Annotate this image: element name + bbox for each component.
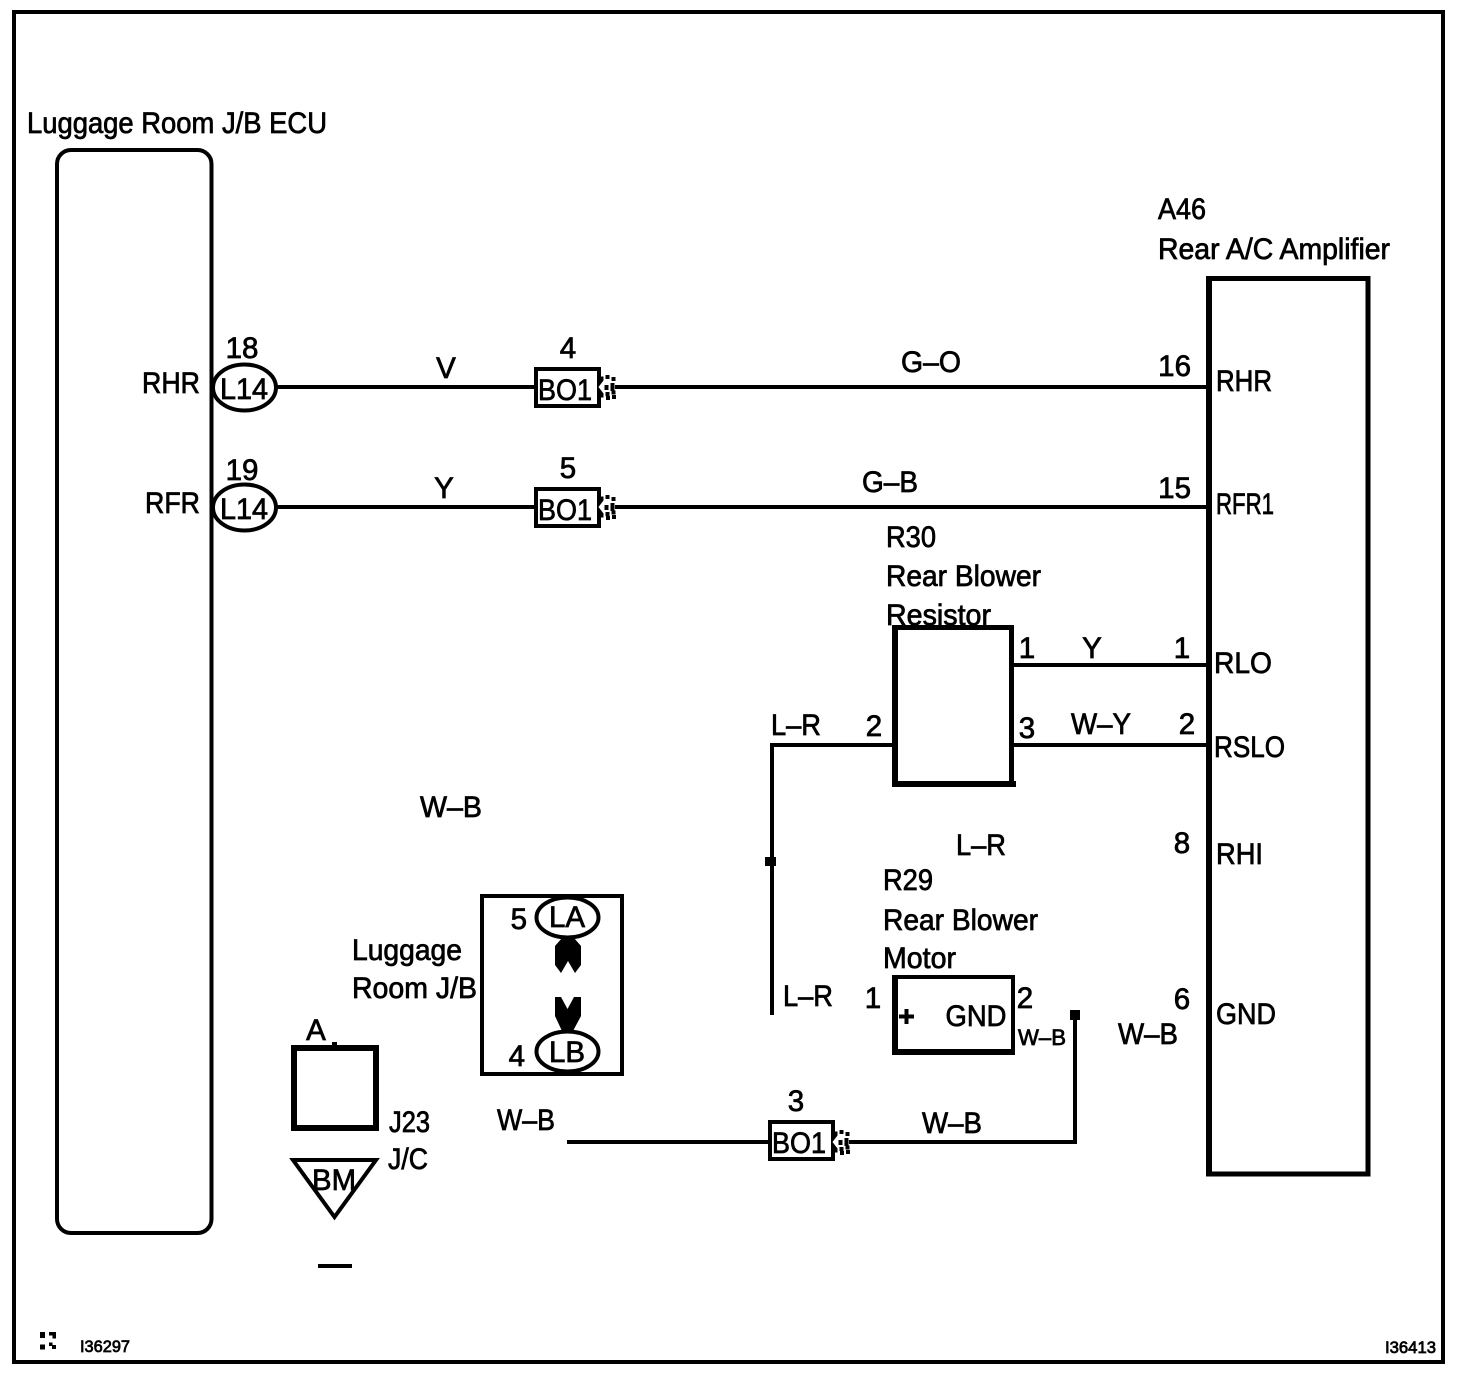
svg-text:L14: L14 xyxy=(220,373,268,406)
svg-text:Rear Blower: Rear Blower xyxy=(883,904,1038,937)
wire G-O : BO1-4 to A46 pin 16 xyxy=(615,385,1206,389)
internal arrow (upper, from LA) xyxy=(555,938,581,973)
svg-text:RHI: RHI xyxy=(1216,838,1263,871)
svg-text:A: A xyxy=(306,1014,326,1047)
svg-text:L–R: L–R xyxy=(771,709,821,742)
A46 left edge (thick) xyxy=(1206,276,1212,1177)
connector LB oval xyxy=(537,1032,599,1072)
junction tick on vertical wire xyxy=(765,857,776,866)
pin A tick xyxy=(332,1042,337,1047)
A46 amplifier box xyxy=(1206,276,1371,281)
svg-text:5: 5 xyxy=(560,452,576,485)
junction connector J23 box xyxy=(291,1045,379,1051)
svg-text:J/C: J/C xyxy=(388,1143,428,1176)
svg-text:2: 2 xyxy=(866,710,882,743)
svg-text:L14: L14 xyxy=(220,493,268,526)
connector LA oval xyxy=(537,898,599,938)
wire L-R from R30-2 : left then down xyxy=(770,743,892,747)
svg-text:L–R: L–R xyxy=(956,829,1006,862)
connector mark (dotted chevron) xyxy=(831,1132,838,1153)
svg-text:RLO: RLO xyxy=(1214,647,1272,680)
svg-text:W–B: W–B xyxy=(497,1104,555,1137)
svg-text:2: 2 xyxy=(1179,708,1195,741)
svg-text:G–O: G–O xyxy=(901,346,961,379)
footer glyph icon xyxy=(40,1332,45,1338)
connector 4 BO1 box xyxy=(534,367,601,371)
wire W-Y : R30-3 to A46 RSLO xyxy=(1014,743,1206,747)
R30 left edge thick xyxy=(892,625,898,787)
svg-text:LB: LB xyxy=(549,1036,585,1069)
svg-text:16: 16 xyxy=(1158,350,1191,383)
ground triangle BM xyxy=(293,1160,376,1217)
R30 resistor box xyxy=(892,625,1014,630)
svg-text:Luggage Room J/B ECU: Luggage Room J/B ECU xyxy=(27,107,327,140)
plus polarity mark xyxy=(899,1015,914,1019)
outer border frame xyxy=(12,10,1445,14)
svg-text:2: 2 xyxy=(1017,982,1033,1015)
svg-text:Y: Y xyxy=(434,472,454,505)
connector 3 BO1 box xyxy=(768,1120,835,1124)
svg-text:BO1: BO1 xyxy=(772,1127,826,1160)
svg-text:Rear Blower: Rear Blower xyxy=(886,560,1041,593)
svg-text:Room J/B: Room J/B xyxy=(352,972,477,1005)
wire W-B from R29-2 : dot, down, left to BO1-3 xyxy=(1070,1010,1080,1020)
svg-text:Y: Y xyxy=(1082,632,1102,665)
svg-text:W–B: W–B xyxy=(420,791,482,824)
wire Y : L14-19 to BO1-5 xyxy=(277,505,534,509)
connector mark (dotted chevron) xyxy=(597,377,604,398)
svg-text:W–Y: W–Y xyxy=(1071,708,1131,741)
J/B box xyxy=(480,894,624,898)
svg-text:W–B: W–B xyxy=(922,1107,982,1140)
svg-text:1: 1 xyxy=(1019,632,1035,665)
svg-text:5: 5 xyxy=(511,903,527,936)
svg-text:1: 1 xyxy=(1174,632,1190,665)
connector mark (dotted chevron) xyxy=(597,497,604,518)
svg-text:LA: LA xyxy=(549,901,585,934)
svg-text:BM: BM xyxy=(312,1164,356,1197)
ground dash below triangle xyxy=(318,1264,352,1268)
svg-text:J23: J23 xyxy=(389,1106,430,1139)
R29 motor box xyxy=(892,975,1015,979)
svg-text:15: 15 xyxy=(1158,472,1191,505)
internal arrow (lower, into LB) xyxy=(555,997,581,1031)
svg-text:BO1: BO1 xyxy=(538,494,592,527)
svg-text:G–B: G–B xyxy=(862,466,918,499)
svg-text:RSLO: RSLO xyxy=(1214,731,1285,764)
svg-text:1: 1 xyxy=(865,982,881,1015)
svg-text:18: 18 xyxy=(226,332,259,365)
svg-text:L–R: L–R xyxy=(783,980,833,1013)
svg-text:19: 19 xyxy=(226,454,259,487)
svg-text:A46: A46 xyxy=(1158,193,1206,226)
svg-text:4: 4 xyxy=(509,1040,525,1073)
svg-text:3: 3 xyxy=(788,1085,804,1118)
svg-text:6: 6 xyxy=(1174,983,1190,1016)
svg-text:W–B: W–B xyxy=(1118,1018,1178,1051)
svg-text:3: 3 xyxy=(1019,712,1035,745)
svg-text:V: V xyxy=(436,352,456,385)
R30 bottom edge thick xyxy=(892,781,1016,787)
svg-text:RHR: RHR xyxy=(142,367,200,400)
svg-text:W–B: W–B xyxy=(1018,1025,1066,1050)
svg-text:I36413: I36413 xyxy=(1385,1338,1436,1357)
wire W-B left of BO1-3 xyxy=(567,1140,768,1144)
ECU block (rounded rect) xyxy=(57,150,212,1233)
svg-text:Luggage: Luggage xyxy=(352,934,462,967)
svg-text:GND: GND xyxy=(946,1000,1007,1033)
R29 left edge thick xyxy=(892,975,898,1055)
svg-text:R30: R30 xyxy=(886,521,936,554)
svg-text:RFR: RFR xyxy=(145,487,200,520)
svg-text:GND: GND xyxy=(1216,998,1276,1031)
connector L14 (pin 19) oval xyxy=(213,485,276,531)
wire Y : R30-1 to A46 RLO xyxy=(1014,663,1206,667)
connector 5 BO1 box xyxy=(534,487,601,491)
svg-text:BO1: BO1 xyxy=(538,374,592,407)
connector L14 (pin 18) oval xyxy=(213,365,276,411)
svg-text:RFR1: RFR1 xyxy=(1216,488,1274,521)
svg-text:R29: R29 xyxy=(883,864,933,897)
wire V : L14-18 to BO1-4 xyxy=(277,385,534,389)
svg-text:I36297: I36297 xyxy=(80,1337,130,1356)
svg-text:RHR: RHR xyxy=(1216,365,1272,398)
R29 bottom edge thick xyxy=(892,1049,1015,1055)
svg-text:Rear A/C Amplifier: Rear A/C Amplifier xyxy=(1158,233,1390,266)
svg-text:Motor: Motor xyxy=(883,942,956,975)
wire G-B : BO1-5 to A46 pin 15 xyxy=(615,505,1206,509)
svg-text:4: 4 xyxy=(560,332,576,365)
svg-text:8: 8 xyxy=(1174,827,1190,860)
